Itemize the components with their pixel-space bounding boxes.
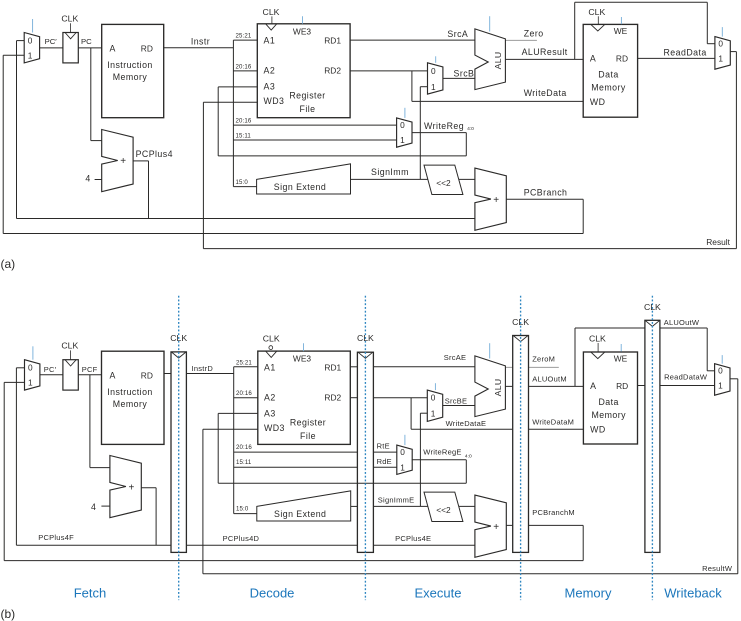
shifter left-2 (a) [424,165,463,194]
pipeline register Decode/Execute (b) [357,352,373,552]
svg-text:0: 0 [718,39,723,49]
data memory (b) [583,343,637,444]
svg-text:WriteDataM: WriteDataM [532,418,574,427]
label WriteDataM (b) [532,418,574,427]
svg-text:Writeback: Writeback [664,586,722,601]
wire Instr (a): IM RD to instruction bus [164,47,234,49]
stage label Fetch (b) [74,586,107,601]
wire 20:16 RtE (b) [234,451,397,453]
svg-text:CLK: CLK [263,7,280,17]
svg-text:0: 0 [431,66,436,76]
svg-text:25:21: 25:21 [236,359,252,366]
wire 15:11 to WriteReg mux 1 (a) [233,139,396,141]
select tick WriteReg mux (a) [404,108,406,118]
pin labels instruction memory (b) [107,370,153,409]
svg-text:A: A [590,381,596,391]
wire ALUResult bypass to result mux input 0 (a) [575,2,715,59]
svg-text:A: A [590,54,596,64]
wire ResultW (b): mux output around to WD3 [203,379,738,574]
wire ZeroM stub (b) [505,366,558,368]
wire SrcBE (b): mux to ALU [443,405,475,407]
plus sign PCPlus4 adder (a) [120,156,126,167]
svg-text:RdE: RdE [377,457,392,466]
svg-text:CLK: CLK [644,302,661,312]
svg-text:A1: A1 [264,35,276,45]
label SrcB (a) [454,68,475,78]
label InstrD (b) [192,364,214,373]
label WriteRegE (b) [423,448,472,460]
wire WriteReg to A3 (a) [218,87,257,156]
label (a) [1,257,16,271]
bit label 20:16 (b) [236,390,252,397]
svg-text:PCF: PCF [82,365,98,374]
svg-text:CLK: CLK [589,333,606,343]
select tick WE3 (a) [302,16,304,24]
wire PCPlus4F/D/E (b): across to branch adder and PC mux 0 [16,368,475,546]
label PC-prime (b) [44,365,57,374]
stage label Decode (b) [250,586,295,601]
svg-text:SrcAE: SrcAE [444,353,467,362]
svg-text:PC′: PC′ [44,365,57,374]
svg-text:CLK: CLK [263,333,280,343]
svg-text:4: 4 [85,173,90,183]
label PCPlus4D (b) [223,534,260,543]
label ResultW (b) [702,564,733,573]
wire PC (a): PC register to Instruction Memory A [78,47,101,49]
svg-text:4: 4 [91,502,96,512]
svg-text:WD3: WD3 [264,96,285,106]
bit label 25:21 (b) [236,359,252,366]
label Result (a) [706,237,730,247]
select tick PC mux (a) [32,19,34,33]
wire 15:0 to Sign Extend (a) [233,186,256,188]
svg-text:WE: WE [614,354,628,364]
label ZeroM (b) [532,355,555,364]
svg-text:0: 0 [28,363,33,373]
label (b) [1,607,16,621]
select tick WE (a) [620,17,622,24]
select tick WriteRegE mux (b) [404,435,406,445]
wire IM RD to IF/ID register (b) [164,373,171,375]
instruction memory (a) [102,24,164,117]
wire ALUOutM (b): ALU to DM A [505,385,583,387]
svg-text:15:11: 15:11 [236,459,252,466]
svg-text:+: + [493,195,499,206]
register file (a) [257,16,350,117]
svg-text:RD1: RD1 [324,35,341,45]
mux SrcBE (b) [427,390,442,421]
svg-text:1: 1 [28,378,33,388]
svg-text:PCPlus4F: PCPlus4F [38,533,74,542]
svg-text:4:0: 4:0 [467,126,474,132]
wire PCBranch (a): branch adder out around to PC mux 1 [3,55,583,233]
adder PCPlus4 (b) [110,456,141,518]
pipeline register Fetch/Decode (b) [171,352,186,553]
svg-text:ResultW: ResultW [702,564,733,573]
svg-text:RD: RD [141,370,153,380]
wire SignImm up to SrcB mux input 1 (a) [420,87,427,180]
wire SignImm (a): Sign Extend to shifter [351,178,428,180]
svg-text:WE: WE [614,26,628,36]
label PC (a) [81,37,92,46]
svg-text:SignImm: SignImm [371,167,409,177]
select tick PC mux (b) [32,346,34,359]
wire SrcB (a): mux to ALU [443,77,475,79]
svg-text:1: 1 [400,135,405,145]
svg-text:Instr: Instr [191,37,210,47]
wire PC' (b): mux to PC register [40,374,63,376]
stage label Writeback (b) [664,586,722,601]
op-amp style ALU (b) [475,356,506,417]
svg-text:Register: Register [289,90,325,100]
mux PC select (b) [25,360,40,390]
label CLK over data memory (a) [588,7,605,17]
svg-text:Memory: Memory [591,83,626,93]
stage label Memory (b) [565,586,612,601]
wire A3 feed (b) [218,412,258,414]
wire PC' (a): mux output to PC register [40,47,63,49]
label CLK over register file (a) [263,7,280,17]
pin labels instruction memory (a) [107,43,153,82]
label SrcBE (b) [445,397,468,406]
wire WriteData (a): RD2 branch to Data Memory WD [412,71,583,102]
svg-text:RtE: RtE [377,442,390,451]
svg-text:20:16: 20:16 [236,390,252,397]
svg-text:ALU: ALU [493,379,503,397]
label CLK over IF/ID register (b) [170,333,187,343]
label ALU rotated (a) [493,52,503,70]
svg-text:Execute: Execute [415,586,462,601]
wire PCF (b): PC register to IM [78,374,101,376]
label CLK over PC register (b) [61,341,78,351]
label ReadDataW (b) [664,373,708,382]
svg-text:WriteReg: WriteReg [424,121,464,131]
svg-text:A2: A2 [264,66,276,76]
select tick SrcBE mux (b) [434,383,436,390]
wire 20:16 to A2 (a) [233,70,257,72]
wire shifted immediate to branch adder (a) [459,178,475,180]
svg-text:Register: Register [290,417,326,427]
adder PCBranch (b) [475,495,506,557]
mux WriteRegE (b) [397,445,412,474]
select tick writeback mux (b) [721,355,723,364]
label 4 constant (a) [85,173,90,183]
svg-text:CLK: CLK [61,13,78,23]
label SignImm (a) [371,167,409,177]
svg-text:A3: A3 [264,82,276,92]
label 4 constant (b) [91,502,96,512]
mux PC select (a) [24,33,39,63]
wire WriteReg loop (a): mux out to A3 wire [218,133,466,156]
bit label 20:16 lower (a) [236,118,252,125]
svg-text:WE3: WE3 [293,27,311,37]
svg-text:Memory: Memory [113,72,148,82]
wire PCBranchM (b): branch adder out around to PC mux 1 [4,382,583,560]
label shift left 2 (b) [436,505,451,515]
label ALUResult (a) [522,47,568,57]
svg-text:WriteRegE: WriteRegE [423,448,461,457]
bit label 15:11 (a) [236,133,252,140]
label CLK over MEM/WB register (b) [644,302,661,312]
wire ALUResult (a): ALU to Data Memory A [505,58,583,60]
svg-text:0: 0 [400,447,405,457]
svg-text:20:16: 20:16 [236,444,252,451]
select tick SrcB mux (a) [435,56,437,63]
svg-text:ALU: ALU [493,52,503,70]
label WriteDataE (b) [446,419,487,428]
wire 25:21 to A1 (b) [234,366,258,368]
svg-text:CLK: CLK [588,7,605,17]
svg-text:0: 0 [28,36,33,46]
mux WriteReg (a) [397,118,412,147]
stage boundary dotted line Fetch/Decode (b) [178,296,180,600]
wire Zero stub (a) [505,39,537,41]
wire SrcA (a): RD1 to ALU [350,39,475,41]
select tick Result mux (a) [721,27,723,36]
svg-text:Instruction: Instruction [107,387,153,397]
wire 25:21 to A1 (a) [233,39,257,41]
svg-text:SignImmE: SignImmE [378,496,415,505]
svg-text:A3: A3 [264,408,276,418]
wire ALUOutW bypass to writeback mux 0 (b) [575,328,715,386]
op-amp style ALU (a) [475,29,506,90]
stage boundary dotted line Memory/Writeback (b) [651,296,653,600]
select tick ALU (a) [489,16,491,31]
svg-text:Memory: Memory [565,586,612,601]
svg-text:1: 1 [28,50,33,60]
svg-text:WE3: WE3 [293,353,311,363]
svg-text:PCPlus4: PCPlus4 [136,149,173,159]
pin labels register file (a) [264,27,342,115]
svg-text:CLK: CLK [170,333,187,343]
wire shifted immediate to branch adder (b) [459,505,475,507]
wire 4 into PCPlus4 adder (a) [95,179,102,181]
wire InstrD (b): IF/ID register to instruction bus [186,373,233,375]
bit label 25:21 (a) [236,33,252,40]
sign extend unit (b) [257,491,351,521]
svg-text:PCBranch: PCBranch [524,187,568,197]
plus sign PCBranch adder (b) [493,522,499,533]
register PC (b) [63,350,78,390]
svg-text:Instruction: Instruction [107,60,153,70]
label ReadData (a) [664,48,707,58]
pin labels data memory (a) [590,26,628,107]
svg-text:<<2: <<2 [436,178,451,188]
svg-text:Result: Result [706,237,730,247]
svg-text:CLK: CLK [357,333,374,343]
svg-text:1: 1 [431,408,436,418]
svg-text:20:16: 20:16 [236,63,252,70]
svg-text:+: + [128,482,134,493]
svg-text:A1: A1 [264,362,276,372]
stage boundary dotted line Execute/Memory (b) [520,296,522,600]
svg-text:File: File [300,104,316,114]
wire RD2 to SrcBE mux (b) [350,397,427,399]
svg-text:PCBranchM: PCBranchM [532,508,575,517]
wire 20:16 to WriteReg mux 0 (a) [233,124,396,126]
svg-text:A2: A2 [264,393,276,403]
svg-text:RD1: RD1 [324,362,341,372]
svg-text:Memory: Memory [591,410,626,420]
svg-text:PCPlus4E: PCPlus4E [395,534,431,543]
svg-text:Sign Extend: Sign Extend [274,182,326,192]
svg-text:ALUResult: ALUResult [522,47,568,57]
wire SignImmE up to SrcBE mux 1 (b) [420,413,427,506]
label PCPlus4 (a) [136,149,173,159]
svg-text:SrcBE: SrcBE [445,397,468,406]
bit label 15:11 (b) [236,459,252,466]
svg-text:A: A [110,43,116,53]
wire RD2 to SrcB mux (a) [350,70,427,72]
svg-text:20:16: 20:16 [236,118,252,125]
pipeline register Memory/Writeback (b) [645,320,660,552]
svg-text:4:0: 4:0 [465,453,472,459]
bit label 15:0 (a) [236,179,249,186]
label CLK over data memory (b) [589,333,606,343]
select tick ALU (b) [489,343,491,358]
label Instr (a) [191,37,210,47]
adder PCBranch (a) [475,168,506,230]
label ALUOutW (b) [664,318,700,327]
svg-text:WriteDataE: WriteDataE [446,419,487,428]
svg-text:ALUOutW: ALUOutW [664,318,700,327]
label SrcAE (b) [444,353,467,362]
label SignImmE (b) [378,496,415,505]
svg-text:Sign Extend: Sign Extend [274,509,326,519]
wire ReadData (a): DM RD to result mux input 1 [638,57,715,59]
svg-text:A: A [110,370,116,380]
wire 20:16 to A2 (b) [234,397,258,399]
label CLK over register file (b) [263,333,280,343]
label Zero (a) [524,29,544,39]
register file (b) [258,346,351,445]
bit label 20:16 (a) [236,63,252,70]
label PC-prime (a) [45,37,58,46]
svg-text:1: 1 [718,54,723,64]
label CLK over EX/MEM register (b) [512,317,529,327]
svg-text:Data: Data [599,397,619,407]
wire 15:11 RdE (b) [234,466,397,468]
mux Result select (a) [715,37,730,70]
label RtE (b) [377,442,390,451]
label WriteReg (a) [424,121,474,132]
svg-text:InstrD: InstrD [192,364,214,373]
svg-text:SrcA: SrcA [447,29,468,39]
svg-text:15:0: 15:0 [236,179,249,186]
wire WriteRegE loop back to A3 (b) [218,413,466,483]
bit label 20:16 lower (b) [236,444,252,451]
wire PCF branch to PCPlus4 adder (b) [90,375,110,468]
svg-text:Fetch: Fetch [74,586,107,601]
svg-text:15:0: 15:0 [236,506,249,513]
svg-text:0: 0 [718,366,723,376]
svg-text:<<2: <<2 [436,505,451,515]
svg-text:WriteData: WriteData [524,88,567,98]
label Sign Extend (b) [274,509,326,519]
svg-text:RD2: RD2 [324,66,341,76]
adder PCPlus4 (a) [102,130,133,192]
wire PCPlus4F (b): adder out down to recirculation wire [140,488,156,546]
stage label Execute (b) [415,586,462,601]
svg-text:RD: RD [616,381,628,391]
wire WriteDataE to DM WD (b) [411,398,583,430]
svg-text:RD2: RD2 [324,393,341,403]
svg-text:1: 1 [400,462,405,472]
svg-text:CLK: CLK [61,341,78,351]
svg-text:(b): (b) [1,607,16,621]
svg-text:Zero: Zero [524,29,544,39]
stage boundary dotted line Decode/Execute (b) [364,296,366,600]
svg-text:(a): (a) [1,257,16,271]
wire Result (a): mux output around to WD3 [203,52,736,249]
node instruction bus (a) [232,40,234,187]
register PC (a) [63,23,78,63]
shifter left-2 (b) [424,492,463,521]
svg-text:Decode: Decode [250,586,295,601]
wire PCPlus4 (a): adder out, down and across to branch adder and PC mux 0 [17,41,475,219]
pin labels data memory (b) [590,354,628,435]
instruction memory (b) [102,351,165,444]
svg-text:CLK: CLK [512,317,529,327]
label PCBranchM (b) [532,508,575,517]
data memory (a) [583,16,637,117]
mux SrcB (a) [428,63,443,94]
svg-text:+: + [493,522,499,533]
label RdE (b) [377,457,392,466]
svg-text:RD: RD [141,43,153,53]
svg-text:RD: RD [616,54,628,64]
svg-text:PC: PC [81,37,92,46]
label CLK over PC register (a) [61,13,78,23]
select tick WE3 (b) [303,343,305,351]
label PCBranch (a) [524,187,568,197]
svg-text:Memory: Memory [113,399,148,409]
svg-text:ReadDataW: ReadDataW [664,373,708,382]
svg-text:WD: WD [590,425,606,435]
svg-text:1: 1 [431,82,436,92]
label ALU rotated (b) [493,379,503,397]
wire SignImmE (b): Sign Extend to shifter [351,505,428,507]
label CLK over ID/EX register (b) [357,333,374,343]
wire PC branch to PCPlus4 adder (a) [91,48,102,141]
svg-text:ZeroM: ZeroM [532,355,555,364]
wire Result to WD3 (a) [203,102,257,248]
label PCPlus4E (b) [395,534,431,543]
label ALUOutM (b) [532,374,567,383]
label PCPlus4F (b) [38,533,74,542]
svg-text:PC′: PC′ [45,37,58,46]
label Sign Extend (a) [274,182,326,192]
svg-text:SrcB: SrcB [454,68,475,78]
svg-text:0: 0 [400,120,405,130]
svg-text:1: 1 [718,381,723,391]
svg-text:ALUOutM: ALUOutM [532,374,567,383]
bit label 15:0 (b) [236,506,249,513]
pin labels register file (b) [264,353,342,441]
wire RD1 SrcAE (b) [350,366,475,368]
wire 15:0 to Sign Extend (b) [234,513,257,515]
label shift left 2 (a) [436,178,451,188]
svg-text:Data: Data [598,69,618,79]
svg-text:WD: WD [590,97,606,107]
svg-text:15:11: 15:11 [236,133,252,140]
label WriteData (a) [524,88,567,98]
wire ReadDataW (b): DM RD to writeback mux 1 [638,385,715,387]
label PCF (b) [82,365,98,374]
svg-text:+: + [120,156,126,167]
svg-text:25:21: 25:21 [236,33,252,40]
mux writeback select (b) [715,364,730,396]
